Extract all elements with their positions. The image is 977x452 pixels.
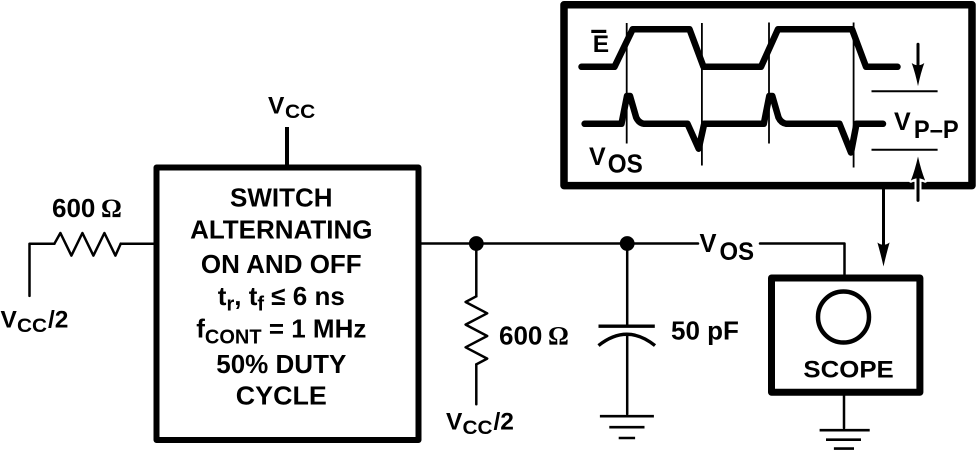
wire C1 to ground [626,336,629,414]
svg-text:V: V [700,230,717,258]
label E-bar [591,30,609,58]
label SCOPE [803,356,893,383]
svg-text:V: V [1,307,18,334]
svg-text:Ω: Ω [101,194,122,223]
timing line 3 (rising edge) [768,23,770,144]
timing line 4 (falling edge) [853,23,855,168]
wire R1 to switch box [121,242,154,245]
wire R2 to VCC/2 [475,364,478,404]
label VP-P [894,108,959,144]
wire scope to ground [843,396,846,428]
wire VCC stub to switch box [285,127,289,165]
svg-text:50 pF: 50 pF [671,316,739,346]
VP-P lower measurement tick [872,149,938,151]
up arrow (VP-P bottom, crosses box edge) [915,172,922,200]
scope screen circle [818,292,869,343]
svg-text:OS: OS [720,238,755,266]
svg-text:600: 600 [499,320,542,350]
svg-text:ON AND OFF: ON AND OFF [201,249,362,279]
svg-text:V: V [268,92,285,119]
scope box [772,278,920,392]
svg-text:E: E [593,31,609,58]
svg-text:V: V [589,143,606,171]
switch box U1 [157,168,419,441]
wire J1 to resistor R2 [475,244,478,297]
node VCC/2 (load) label [446,409,514,440]
wire switch output bus [422,242,699,245]
waveform E-bar trace [582,29,898,67]
resistor R1 600 ohm (input) [54,233,120,256]
svg-text:SCOPE: SCOPE [803,356,893,383]
svg-text:/2: /2 [494,409,514,436]
svg-text:Ω: Ω [548,321,569,350]
node VCC/2 (left source) label [1,307,69,338]
ground (capacitor) [600,416,654,438]
label 600 ohm (R2) [499,320,569,350]
VP-P upper measurement tick [872,90,938,92]
svg-text:tr, tf ≤ 6 ns: tr, tf ≤ 6 ns [218,281,345,316]
svg-text:V: V [446,409,463,436]
arrow waveform box to scope [882,189,885,250]
timing line 1 (rising edge) [626,23,628,144]
svg-text:/2: /2 [48,307,68,334]
wire J2 to capacitor C1 [626,244,629,325]
label VOS (output node) [700,230,755,266]
svg-text:OS: OS [608,150,643,178]
svg-text:CYCLE: CYCLE [236,380,327,410]
label 600 ohm (R1) [52,193,122,223]
waveform VOS trace [585,96,883,153]
svg-text:CC: CC [285,102,315,123]
resistor R2 600 ohm (load) [466,296,488,364]
wire VOS to scope [760,244,845,278]
label 50 pF (C1) [671,316,739,346]
svg-text:600: 600 [52,193,95,223]
svg-text:fCONT = 1 MHz: fCONT = 1 MHz [196,313,366,348]
junction node J2 [620,236,635,251]
svg-text:CC: CC [463,418,493,439]
waveform display box [564,5,972,186]
svg-text:ALTERNATING: ALTERNATING [190,215,372,245]
down arrow (VP-P top) [917,44,920,68]
junction node J1 [469,236,484,251]
wire VCC/2 up to resistor R1 [30,244,55,296]
timing line 2 (falling edge) [701,23,703,166]
capacitor C1 50 pF [599,325,655,328]
svg-text:50% DUTY: 50% DUTY [216,349,346,379]
node VCC label [268,92,315,123]
svg-text:SWITCH: SWITCH [230,182,333,212]
svg-text:V: V [894,108,911,136]
label VOS (waveform) [589,143,643,178]
svg-text:CC: CC [17,316,47,337]
ground (scope) [820,430,870,448]
svg-text:P–P: P–P [914,116,959,144]
